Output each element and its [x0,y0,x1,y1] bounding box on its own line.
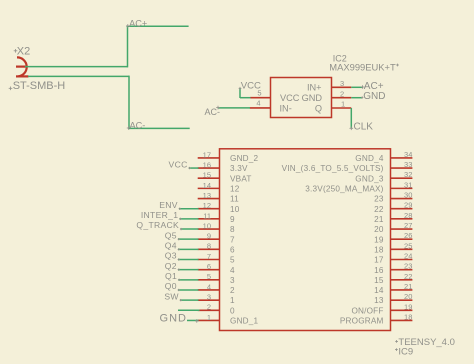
IC9 pin 11 stub (left) [198,218,220,220]
IC9 pin 5 stub (left) [198,279,220,281]
wire net Q5 to IC9 pin 9 [178,238,199,240]
IC9 pin 17 inside name GND_2 [230,154,259,163]
IC2 pin name IN+ [307,83,322,93]
svg-text:32: 32 [404,170,412,179]
IC9 pin number 34 [404,150,412,159]
svg-text:ON/OFF: ON/OFF [351,306,383,315]
IC9 pin 21 inside name 14 [374,286,384,295]
svg-text:2: 2 [207,303,211,312]
svg-text:Q1: Q1 [165,271,177,281]
IC2 pin 2 stub [332,97,352,99]
IC9 pin 17 stub (left) [198,157,220,159]
label CLK (net name) [350,121,374,132]
IC9 pin 19 inside name ON/OFF [351,306,383,315]
label ENV (net name) [159,200,181,210]
svg-text:1: 1 [230,296,235,305]
IC2 pin name Q [315,103,322,113]
svg-text:22: 22 [374,205,384,214]
svg-text:12: 12 [230,184,240,193]
svg-text:23: 23 [374,195,384,204]
svg-text:8: 8 [230,225,235,234]
IC9 pin 11 inside name 9 [230,215,235,224]
IC9 pin 27 inside name 20 [374,225,384,234]
wire unnamed net at IC9 pin 2 [178,309,200,311]
svg-text:VCC: VCC [169,159,188,169]
IC9 pin 26 inside name 19 [374,235,384,244]
IC2 pin name IN- [280,103,292,113]
svg-text:3: 3 [230,276,235,285]
label X2 (connector name) [14,46,31,58]
IC9 pin 28 stub (right) [391,218,413,220]
IC9 pin 6 inside name 4 [230,266,235,275]
wire net VCC to IC9 pin 16 [189,167,199,169]
svg-text:AC-: AC- [130,121,146,131]
wire net Q_TRACK to IC9 pin 10 [180,228,198,230]
IC9 pin 23 stub (right) [391,269,413,271]
label AC+ (net name at IC2) [361,81,384,92]
svg-text:VCC: VCC [241,80,261,91]
IC9 pin number 30 [404,191,412,200]
wire net AC- bottom horizontal [128,127,190,129]
svg-text:GND_2: GND_2 [230,154,259,163]
svg-text:13: 13 [203,191,211,200]
IC9 pin 24 stub (right) [391,259,413,261]
svg-text:PROGRAM: PROGRAM [340,317,384,326]
IC9 pin 31 stub (right) [391,187,413,189]
IC2 pin number 5 [257,88,261,97]
svg-text:29: 29 [404,201,412,210]
svg-text:14: 14 [203,181,211,190]
label IC2 (part name) [333,54,347,64]
svg-text:19: 19 [404,302,412,311]
wire net INTER_1 to IC9 pin 11 [180,218,199,220]
svg-text:AC-: AC- [205,107,221,117]
svg-text:16: 16 [203,160,211,169]
IC9 pin number 23 [404,262,412,271]
svg-text:16: 16 [374,266,384,275]
value ST-SMB-H (connector value) [9,80,66,92]
svg-text:3: 3 [207,293,211,302]
svg-text:11: 11 [203,211,211,220]
wire net GND to IC9 pin 1 [187,319,199,321]
label AC- (net name at IC2) [205,106,221,117]
IC9 pin 31 inside name 3.3V(250_MA_MAX) [305,184,383,193]
wire net AC- vertical [128,76,130,130]
IC9 pin 14 stub (left) [198,187,220,189]
IC9 pin number 8 [207,242,211,251]
IC9 pin 13 inside name 11 [230,195,239,204]
IC9 pin 6 stub (left) [198,269,220,271]
IC9 pin number 2 [207,303,211,312]
microcontroller module IC9 TEENSY_4.0 body [220,149,391,331]
IC2 pin 3 stub [332,86,352,88]
IC9 pin number 4 [207,282,211,291]
svg-text:33: 33 [404,160,412,169]
IC9 pin 7 inside name 5 [230,256,235,265]
IC9 pin 30 stub (right) [391,198,413,200]
IC9 pin 22 stub (right) [391,279,413,281]
IC9 pin number 25 [404,241,412,250]
svg-text:31: 31 [404,180,412,189]
svg-text:GND: GND [160,312,187,324]
wire net AC+ top horizontal [127,25,189,27]
svg-text:VBAT: VBAT [230,174,252,183]
wire net AC+ from IC2 pin 3 [351,86,363,88]
IC9 pin number 18 [404,312,412,321]
svg-text:GND: GND [363,91,385,102]
svg-text:GND_4: GND_4 [355,154,384,163]
svg-text:25: 25 [404,241,412,250]
IC9 pin number 5 [207,272,211,281]
IC2 pin 4 stub [250,107,271,109]
svg-text:INTER_1: INTER_1 [141,210,178,220]
svg-text:11: 11 [230,195,239,204]
IC9 pin number 16 [203,160,211,169]
wire net Q2 to IC9 pin 6 [178,269,199,271]
IC9 pin number 33 [404,160,412,169]
IC9 pin 16 inside name 3.3V [230,164,248,173]
svg-text:5: 5 [207,272,211,281]
svg-text:7: 7 [230,235,235,244]
IC9 pin 18 stub (right) [391,319,413,321]
svg-text:13: 13 [374,296,384,305]
svg-text:MAX999EUK+T: MAX999EUK+T [329,61,396,72]
value TEENSY_4.0 (part value) [395,337,455,348]
svg-text:VCC: VCC [280,93,300,103]
svg-text:9: 9 [207,232,211,241]
IC9 pin 10 inside name 8 [230,225,235,234]
IC9 pin 9 stub (left) [198,238,220,240]
svg-text:3.3V: 3.3V [230,164,248,173]
svg-text:IN+: IN+ [307,83,322,93]
svg-text:Q_TRACK: Q_TRACK [136,220,179,230]
IC9 pin 20 stub (right) [391,299,413,301]
IC9 pin number 19 [404,302,412,311]
supply VCC symbol [239,87,242,98]
wire net Q1 to IC9 pin 5 [178,279,198,281]
wire net Q0 to IC9 pin 4 [178,289,199,291]
svg-text:ENV: ENV [159,200,178,210]
IC9 pin 32 inside name GND_3 [355,174,384,183]
svg-text:2: 2 [340,89,344,98]
svg-text:10: 10 [230,205,240,214]
svg-text:Q4: Q4 [165,241,177,251]
IC9 pin 33 inside name VIN_(3.6_TO_5.5_VOLTS) [282,164,384,173]
svg-text:SW: SW [164,291,179,301]
IC9 pin 16 stub (left) [198,167,220,169]
IC9 pin 8 inside name 6 [230,245,235,254]
label Q2 (net name) [165,261,180,271]
IC9 pin 28 inside name 21 [374,215,384,224]
svg-text:CLK: CLK [354,121,374,132]
IC9 pin 27 stub (right) [391,228,413,230]
svg-text:5: 5 [230,256,235,265]
IC9 pin number 31 [404,180,412,189]
label INTER_1 (net name) [141,210,182,220]
IC9 pin 3 stub (left) [198,299,220,301]
IC9 pin 25 inside name 18 [374,245,384,254]
IC9 pin 29 inside name 22 [374,205,384,214]
svg-text:Q0: Q0 [165,281,177,291]
wire net CLK vertical from IC2 pin 1 [350,108,352,129]
svg-text:Q: Q [315,103,322,113]
svg-text:1: 1 [207,313,211,322]
IC9 pin 8 stub (left) [198,248,220,250]
svg-text:28: 28 [404,211,412,220]
IC9 pin number 3 [207,293,211,302]
svg-text:Q3: Q3 [165,251,177,261]
IC9 pin 34 stub (right) [391,157,413,159]
svg-text:18: 18 [374,245,384,254]
label Q1 (net name) [165,271,180,281]
label GND (net name at IC2) [361,91,385,102]
IC9 pin 3 inside name 1 [230,296,235,305]
IC2 pin 5 stub [250,97,270,99]
svg-text:8: 8 [207,242,211,251]
label SW (net name) [164,291,182,301]
IC9 pin 1 inside name GND_1 [230,317,259,326]
label Q0 (net name) [165,281,180,291]
IC9 pin 4 stub (left) [198,289,220,291]
svg-text:2: 2 [230,286,235,295]
svg-text:12: 12 [203,201,211,210]
svg-text:4: 4 [207,282,211,291]
svg-text:6: 6 [207,262,211,271]
svg-text:21: 21 [404,282,412,291]
IC9 pin 32 stub (right) [391,177,413,179]
svg-text:22: 22 [404,272,412,281]
IC9 pin 19 stub (right) [391,309,413,311]
IC9 pin 20 inside name 13 [374,296,384,305]
svg-text:26: 26 [404,231,412,240]
svg-text:34: 34 [404,150,412,159]
IC9 pin 26 stub (right) [391,238,413,240]
IC9 pin number 6 [207,262,211,271]
wire net GND from IC2 pin 2 [351,97,362,99]
IC9 pin 12 inside name 10 [230,205,240,214]
label IC9 (part name) [395,347,413,358]
IC9 pin number 28 [404,211,412,220]
IC9 pin number 13 [203,191,211,200]
label VCC (net name) [169,159,191,169]
IC9 pin number 24 [404,252,412,261]
svg-text:GND_3: GND_3 [355,174,384,183]
svg-text:30: 30 [404,191,412,200]
IC9 pin 1 stub (left) [198,319,220,321]
wire net SW to IC9 pin 3 [180,299,199,301]
IC9 pin number 26 [404,231,412,240]
IC9 pin 18 inside name PROGRAM [340,317,384,326]
IC9 pin 34 inside name GND_4 [355,154,384,163]
svg-text:15: 15 [203,171,211,180]
svg-text:23: 23 [404,262,412,271]
svg-text:Q5: Q5 [165,230,177,240]
IC9 pin 2 inside name 0 [230,306,235,315]
svg-text:3.3V(250_MA_MAX): 3.3V(250_MA_MAX) [305,184,383,193]
IC9 pin number 1 [207,313,211,322]
svg-text:ST-SMB-H: ST-SMB-H [13,80,66,92]
IC9 pin 15 inside name VBAT [230,174,252,183]
connector X2 (SMB jack symbol) [16,57,29,76]
svg-text:4: 4 [230,266,235,275]
wire net AC+ vertical [127,26,129,68]
IC9 pin number 12 [203,201,211,210]
svg-text:9: 9 [230,215,235,224]
svg-text:18: 18 [404,312,412,321]
IC2 pin number 2 [340,89,344,98]
wire net AC- horizontal from X2 shield pin [28,75,129,77]
svg-text:14: 14 [374,286,384,295]
IC9 pin 33 stub (right) [391,167,413,169]
svg-text:7: 7 [207,252,211,261]
op-amp comparator IC2 body [271,78,332,118]
svg-text:GND_1: GND_1 [230,317,259,326]
IC2 pin number 4 [256,99,260,108]
svg-text:AC+: AC+ [129,19,147,29]
wire net Q4 to IC9 pin 8 [178,248,199,250]
label GND (net name at IC9) [160,312,199,324]
IC9 pin 14 inside name 12 [230,184,240,193]
wire net ENV to IC9 pin 12 [179,208,199,210]
svg-text:10: 10 [203,221,211,230]
IC9 pin 21 stub (right) [391,289,413,291]
svg-text:X2: X2 [17,46,30,58]
svg-text:17: 17 [203,150,211,159]
svg-text:27: 27 [404,221,412,230]
svg-text:15: 15 [374,276,384,285]
IC9 pin number 21 [404,282,412,291]
svg-text:4: 4 [256,99,260,108]
wire net AC+ horizontal from X2 center pin [25,66,128,68]
label AC- (net name) [127,121,146,131]
IC9 pin 2 stub (left) [198,309,220,311]
label Q5 (net name) [165,230,180,240]
IC2 pin number 1 [341,100,345,109]
IC9 pin 4 inside name 2 [230,286,235,295]
label Q4 (net name) [165,241,180,251]
svg-text:Q2: Q2 [165,261,177,271]
label VCC (supply name) [241,80,261,91]
svg-text:24: 24 [404,252,412,261]
svg-text:20: 20 [374,225,384,234]
wire VCC supply to IC2 pin 5 [240,97,251,99]
IC9 pin 9 inside name 7 [230,235,235,244]
IC9 pin 29 stub (right) [391,208,413,210]
IC2 pin name VCC [280,93,300,103]
svg-text:3: 3 [340,79,344,88]
IC9 pin 23 inside name 16 [374,266,384,275]
IC2 pin 1 stub [332,107,352,109]
IC9 pin 15 stub (left) [198,177,220,179]
IC9 pin number 29 [404,201,412,210]
IC9 pin 12 stub (left) [198,208,220,210]
IC9 pin number 7 [207,252,211,261]
svg-text:21: 21 [374,215,384,224]
svg-text:20: 20 [404,292,412,301]
svg-text:GND: GND [302,93,323,103]
IC9 pin 30 inside name 23 [374,195,384,204]
IC9 pin number 20 [404,292,412,301]
IC9 pin number 27 [404,221,412,230]
svg-text:17: 17 [374,256,384,265]
svg-text:1: 1 [341,100,345,109]
wire net AC- to IC2 pin 4 [218,107,250,109]
IC9 pin number 9 [207,232,211,241]
label Q3 (net name) [165,251,180,261]
svg-text:6: 6 [230,245,235,254]
label AC+ (net name) [126,19,147,29]
IC9 pin 24 inside name 17 [374,256,384,265]
svg-text:IN-: IN- [280,103,292,113]
IC9 pin 7 stub (left) [198,259,220,261]
IC9 pin number 10 [203,221,211,230]
value MAX999EUK+T (part value) [329,61,399,72]
IC9 pin 13 stub (left) [198,198,220,200]
IC9 pin 22 inside name 15 [374,276,384,285]
IC9 pin 5 inside name 3 [230,276,235,285]
svg-text:IC9: IC9 [398,347,413,358]
IC9 pin number 14 [203,181,211,190]
IC9 pin 25 stub (right) [391,248,413,250]
IC9 pin number 32 [404,170,412,179]
label Q_TRACK (net name) [136,220,182,230]
IC9 pin 10 stub (left) [198,228,220,230]
IC2 pin number 3 [340,79,344,88]
IC9 pin number 15 [203,171,211,180]
wire net Q3 to IC9 pin 7 [178,259,199,261]
IC9 pin number 11 [203,211,211,220]
IC9 pin number 17 [203,150,211,159]
svg-text:VIN_(3.6_TO_5.5_VOLTS): VIN_(3.6_TO_5.5_VOLTS) [282,164,384,173]
IC2 pin name GND [302,93,323,103]
svg-text:0: 0 [230,306,235,315]
svg-text:19: 19 [374,235,384,244]
IC9 pin number 22 [404,272,412,281]
